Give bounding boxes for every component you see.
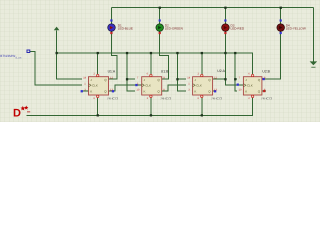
junction J3 [176,78,178,80]
wire logic-high bus [57,53,253,74]
junction bus-J3K3 [176,52,178,54]
pin stub CLK2 [135,84,142,86]
wire Q-bar2 to CLK3 [162,85,186,91]
svg-text:LED-GREEN: LED-GREEN [165,27,183,31]
junction bus-U2A-top [201,52,203,54]
wire LED D1 anode drop [110,8,112,24]
wire bottom reset rail [27,98,253,115]
svg-text:LED-BLUE: LED-BLUE [118,27,133,31]
wire U1:B bottom pin to rail [150,98,152,116]
junction bus-U1B-top [150,52,152,54]
wire bus drop to J2/K2 [127,53,135,91]
LED D2 [156,19,183,34]
svg-text:K: K [245,90,247,94]
red state square Q-bar4 [263,90,265,92]
wire Q-bar1 to CLK2 [109,85,137,91]
LED D3 [222,19,245,34]
node Q-bar3 end [214,90,216,92]
wire LED D3 anode drop [224,8,226,24]
ground terminal [310,61,318,67]
svg-text:74HC73: 74HC73 [107,97,118,101]
wire bus drop to J4/K4 [235,53,237,91]
wire D1 cathode to Q1 of U1:A [109,31,117,79]
pin stub Q4 [262,78,263,80]
wire top ground rail [111,7,313,9]
flip-flop U2:A 74HC73 [187,69,225,100]
junction bus-Q3 [224,52,226,54]
power terminal [54,27,60,31]
svg-text:d_on: d_on [16,56,22,59]
grid background [0,0,320,122]
svg-text:U1:B: U1:B [161,69,169,73]
power terminal stem to J1 [57,30,82,79]
svg-text:74HC73: 74HC73 [160,97,171,101]
svg-text:CLK: CLK [247,83,253,87]
svg-text:74HC73: 74HC73 [261,97,272,101]
svg-text:K: K [194,90,196,94]
junction rail-U1B-reset [150,114,152,116]
svg-text:BTN/4MHz: BTN/4MHz [0,54,16,58]
junction rail-D2 [159,7,161,9]
pin stub Q-bar4 [262,90,266,92]
junction bus-J2K2 [126,52,128,54]
watermark logo D** [13,106,30,120]
svg-text:74HC73: 74HC73 [211,97,222,101]
flip-flop U1:B 74HC73 [136,69,171,100]
junction bus-J4K4 [234,52,236,54]
svg-text:U2:B: U2:B [262,69,270,73]
svg-text:CLK: CLK [92,83,98,87]
junction bus-power [56,52,58,54]
wire ground drop right side [312,8,314,62]
svg-text:U2:A: U2:A [217,69,225,73]
junction Q3 [224,78,226,80]
wire input terminal to CLK1 [30,51,82,85]
svg-text:U1:A: U1:A [108,69,116,73]
flip-flop U2:B 74HC73 [239,69,273,100]
svg-text:D: D [13,107,21,119]
pin stub Q-bar3 [213,90,216,92]
flip-flop U1:A 74HC73 [83,69,118,100]
junction rail-U1A-reset [97,114,99,116]
LED D1 [108,19,133,34]
svg-text:K: K [144,90,146,94]
wire U1:B top pin to bus [150,53,152,74]
node Q-bar1 end [112,90,114,92]
node CLK2 end [135,84,137,86]
wire U2:A bottom pin to rail [201,98,203,116]
wire LED D2 anode drop [159,8,161,24]
svg-text:CLK: CLK [196,83,202,87]
wire D4 cathode to Q4 of U2:B [263,31,281,79]
junction rail-D3 [224,7,226,9]
junction bus-U1A-top [97,52,99,54]
junction J4 [234,78,236,80]
pin stub CLK4 [237,84,244,86]
wire bus drop to J3/K3 [177,53,186,91]
LED D4 [277,19,306,34]
svg-text:LED-RED: LED-RED [231,27,245,31]
wire LED D4 anode drop [280,8,282,24]
svg-text:K: K [90,90,92,94]
wire U1:A bottom pin to rail [97,98,99,116]
red state square CLK4 [245,83,247,85]
junction rail-D4 [280,7,282,9]
node K1 dangling end [81,90,83,92]
wire D3 cathode to Q3 of U2:A and CLK of U2:B [213,31,237,85]
node CLK4 end [237,84,239,86]
wire D2 cathode to Q2 of U1:B [160,31,169,79]
node Q4 end [263,78,265,80]
input terminal BTN [0,50,30,59]
svg-text:CLK: CLK [145,83,151,87]
junction rail-U2A-reset [201,114,203,116]
wire U1:A top pin to bus [97,53,99,74]
wire U2:A top pin to bus [201,53,203,74]
svg-text:LED-YELLOW: LED-YELLOW [286,27,306,31]
pin stub K1 dangling [82,90,88,92]
junction J2 [126,78,128,80]
